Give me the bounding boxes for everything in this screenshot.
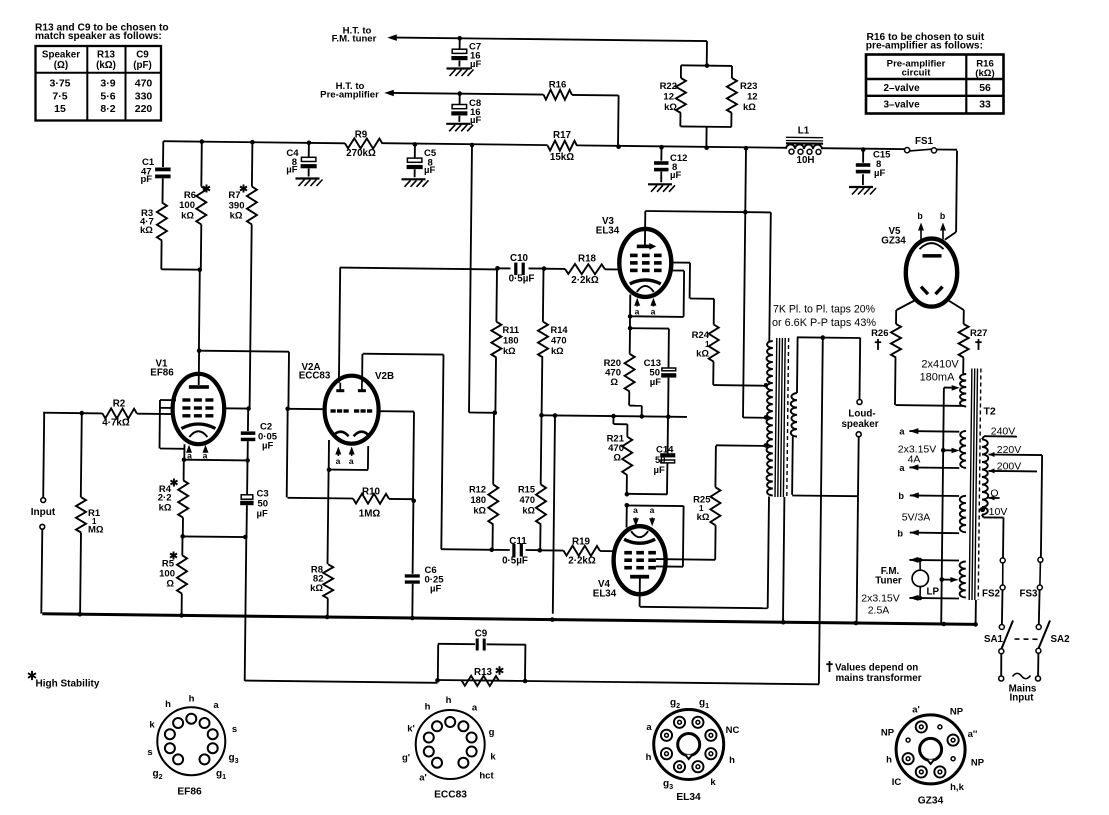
wire FS2 to SA1 — [1001, 590, 1004, 625]
svg-text:2–valve: 2–valve — [884, 83, 921, 94]
capacitor C9 — [438, 639, 526, 681]
label FM Tuner — [875, 566, 902, 587]
node OPT tap2 — [764, 443, 769, 448]
svg-text:270kΩ: 270kΩ — [346, 148, 376, 159]
resistor R7 — [247, 142, 257, 408]
node R22 rail — [704, 145, 709, 150]
svg-text:EF86: EF86 — [177, 787, 202, 798]
label 7K taps — [772, 304, 876, 330]
wire 240V — [982, 436, 1017, 439]
svg-text:g': g' — [402, 753, 410, 764]
label 5V/3A — [902, 512, 931, 524]
node C5 rail — [413, 142, 418, 147]
wire R24 to tap — [713, 384, 766, 387]
svg-text:C9: C9 — [475, 629, 488, 640]
label H.T. to F.M. tuner — [332, 25, 377, 44]
svg-text:FS2: FS2 — [982, 588, 1001, 599]
svg-text:4·7kΩ: 4·7kΩ — [102, 418, 130, 429]
svg-text:Input: Input — [1010, 692, 1035, 703]
svg-text:kΩ: kΩ — [522, 506, 535, 516]
wire B+ vertical — [469, 145, 495, 413]
label C15 — [873, 150, 891, 180]
label R16 — [549, 80, 567, 91]
svg-text:R11: R11 — [503, 325, 520, 335]
node R8 gnd — [325, 615, 330, 620]
label 240V — [991, 425, 1016, 437]
svg-text:R9: R9 — [355, 129, 368, 140]
svg-text:a: a — [651, 307, 656, 317]
node V1 cathode — [182, 457, 187, 462]
wire R3 bottom — [161, 241, 200, 270]
heater pin V5 b — [917, 211, 924, 240]
svg-text:b: b — [898, 491, 904, 501]
node R4/R5 junction — [180, 534, 185, 539]
wire SA1 to terminal — [1000, 654, 1002, 676]
wire g2 into tube — [224, 407, 249, 409]
label high stability — [28, 671, 100, 690]
socket ECC83 — [416, 710, 485, 779]
resistor R19 — [540, 546, 614, 556]
svg-text:k: k — [149, 720, 155, 731]
tube V5 GZ34 — [906, 239, 957, 307]
ground C5 — [402, 179, 429, 187]
svg-text:R23: R23 — [740, 81, 757, 92]
capacitor C12 — [654, 147, 669, 182]
svg-text:a: a — [899, 463, 905, 473]
svg-text:3·75: 3·75 — [49, 78, 70, 90]
svg-text:(pF): (pF) — [133, 60, 152, 71]
wire R10 link — [288, 497, 354, 500]
node V4 cathode 1 — [625, 492, 630, 497]
wire V2B grid out — [378, 411, 414, 574]
svg-text:µF: µF — [424, 165, 435, 176]
node V1 plate link — [197, 348, 202, 353]
svg-text:R15: R15 — [518, 485, 535, 495]
lamp LP — [912, 560, 928, 598]
label R2 — [102, 399, 130, 429]
wire T2 CT bus — [941, 388, 944, 625]
capacitor C7 — [451, 38, 467, 66]
capacitor C14 — [660, 417, 675, 495]
svg-text:15kΩ: 15kΩ — [550, 152, 574, 163]
svg-text:10V: 10V — [989, 506, 1008, 518]
node R14 rail — [539, 413, 544, 418]
svg-text:kΩ: kΩ — [664, 102, 677, 113]
label C5 — [424, 148, 437, 176]
svg-text:7K Pl. to Pl. taps 20%: 7K Pl. to Pl. taps 20% — [773, 304, 875, 316]
svg-text:k: k — [710, 777, 716, 788]
tap O — [989, 495, 1000, 500]
label R4 — [158, 479, 178, 514]
wire V1 cathode — [183, 444, 185, 459]
T2 primary winding — [982, 439, 988, 514]
node B+ plate cross — [743, 210, 748, 215]
svg-text:SA1: SA1 — [984, 634, 1004, 645]
wire R4 to C3 — [183, 535, 246, 538]
label C9 — [475, 629, 488, 640]
node C13/C14 rail — [666, 414, 671, 419]
label 10V — [989, 506, 1008, 518]
fuse FS3 — [1037, 557, 1043, 590]
capacitor C10 — [514, 263, 525, 276]
wire FM bottom — [909, 595, 959, 601]
label 2x3.15V 4A — [898, 444, 937, 466]
svg-text:NP: NP — [950, 707, 964, 718]
label R7 — [228, 185, 247, 222]
ground C12 — [648, 184, 675, 192]
svg-text:High Stability: High Stability — [36, 679, 100, 690]
svg-text:470: 470 — [519, 495, 535, 505]
T2 FM winding — [960, 562, 966, 598]
resistor R10 — [353, 494, 389, 504]
svg-text:R14: R14 — [551, 325, 569, 335]
label FS1 — [915, 136, 934, 147]
node B+ CT feed — [744, 146, 749, 151]
resistor R16 — [544, 90, 573, 100]
svg-text:h: h — [886, 755, 892, 766]
wire SA2 to terminal — [1037, 653, 1039, 676]
svg-text:C10: C10 — [510, 253, 529, 264]
svg-text:0·5µF: 0·5µF — [509, 274, 535, 285]
fuse FS2 — [1000, 558, 1005, 590]
wire V3 g3 tie — [630, 271, 684, 317]
resistor R9 — [345, 138, 383, 148]
svg-text:2x410V: 2x410V — [921, 359, 959, 371]
svg-text:FS1: FS1 — [915, 136, 934, 147]
wire R25 to tap — [716, 444, 766, 447]
node ground vert — [550, 617, 555, 622]
label Mains Input — [1009, 683, 1037, 703]
svg-text:3·9: 3·9 — [100, 78, 115, 90]
svg-text:F.M. tuner: F.M. tuner — [332, 34, 377, 45]
svg-text:L1: L1 — [798, 125, 810, 136]
label R19 — [568, 537, 596, 567]
terminal mains right — [1036, 676, 1041, 681]
svg-text:O: O — [990, 488, 998, 500]
label R3 — [140, 208, 154, 236]
T2 heater centre tap — [943, 448, 959, 453]
wire C13 branch — [630, 328, 669, 367]
wire H.T. to F.M. tuner — [387, 34, 707, 65]
wire V3 g2 to R24 — [671, 263, 714, 325]
resistor R6 — [196, 142, 206, 270]
node bus heater CT — [941, 448, 946, 453]
caption GZ34 — [918, 796, 944, 807]
wire V3 plate — [645, 211, 771, 341]
resistor R13 — [462, 676, 499, 686]
node core gnd — [781, 620, 786, 625]
label LP — [927, 587, 940, 598]
node R1 top — [80, 411, 85, 416]
node R5 gnd — [179, 613, 184, 618]
label C12 — [670, 153, 687, 181]
label R22 — [660, 81, 678, 113]
wire input top — [43, 413, 102, 498]
wire R22/R23 top bar — [681, 64, 732, 67]
label FS3 — [1020, 588, 1039, 599]
svg-text:Input: Input — [31, 507, 56, 518]
resistor R24 — [709, 325, 719, 385]
svg-text:kΩ: kΩ — [159, 503, 172, 514]
wire 220V drop — [1041, 455, 1042, 558]
svg-text:pF: pF — [141, 174, 153, 185]
svg-text:5V/3A: 5V/3A — [902, 512, 931, 524]
svg-text:a: a — [213, 700, 219, 711]
svg-text:470: 470 — [551, 336, 567, 346]
resistor R1 — [76, 413, 86, 615]
heater pin V4 a — [633, 505, 639, 526]
wire V5 anode right — [949, 301, 964, 325]
tube V1 EF86 — [173, 374, 225, 444]
label R23 — [740, 81, 758, 113]
wire 5V bottom b — [897, 529, 959, 539]
label values depend — [826, 661, 921, 684]
svg-text:3–valve: 3–valve — [884, 100, 921, 111]
node OPT CT — [764, 415, 769, 420]
wire C14 to cathode — [627, 493, 668, 496]
svg-text:V2B: V2B — [375, 371, 394, 382]
svg-text:5·6: 5·6 — [100, 90, 115, 102]
svg-text:Ω: Ω — [610, 377, 618, 388]
svg-text:240V: 240V — [991, 425, 1016, 437]
svg-text:R13: R13 — [474, 667, 493, 678]
svg-text:a: a — [472, 703, 478, 714]
label C2 — [258, 422, 278, 452]
ground C4 — [296, 179, 323, 187]
node feedback tap — [821, 335, 826, 340]
ground C15 — [849, 187, 876, 195]
label C7 — [469, 42, 481, 71]
svg-text:µF: µF — [650, 377, 661, 388]
svg-text:2·2kΩ: 2·2kΩ — [571, 275, 599, 286]
svg-text:a': a' — [419, 773, 427, 784]
svg-text:a: a — [899, 427, 905, 437]
capacitor C1 — [155, 168, 171, 203]
svg-text:NP: NP — [881, 728, 895, 739]
svg-text:h: h — [446, 695, 452, 706]
wire bottom ground rail — [42, 614, 977, 625]
wire 10V — [980, 507, 1004, 518]
inductor L1 — [786, 137, 823, 154]
wire R10 right link — [389, 498, 414, 500]
svg-text:k': k' — [407, 724, 415, 735]
svg-text:200V: 200V — [997, 461, 1022, 473]
wire LS bottom — [792, 437, 859, 623]
node preamp feed — [616, 144, 621, 149]
table title 2 — [866, 32, 985, 52]
svg-text:kΩ: kΩ — [140, 225, 153, 236]
resistor R15 — [536, 415, 546, 550]
label V4 — [593, 579, 617, 600]
OPT secondary winding — [791, 393, 797, 437]
capacitor C4 — [301, 143, 317, 177]
svg-text:Pre-amplifier: Pre-amplifier — [320, 89, 379, 100]
label R13 — [474, 666, 503, 678]
wire V2B plate — [362, 354, 443, 550]
wire C11 line — [441, 549, 540, 550]
label C4 — [286, 148, 299, 175]
label 2x410V — [920, 359, 960, 384]
label 220V — [997, 444, 1022, 456]
label C3 — [257, 489, 269, 520]
svg-text:IC: IC — [892, 777, 902, 788]
wire R22/R23 bottom bar — [681, 125, 732, 128]
label C10 — [509, 253, 535, 285]
node R6 rail — [200, 139, 205, 144]
resistor R21 — [613, 416, 632, 494]
svg-text:Ω: Ω — [613, 453, 621, 464]
wire FM top — [909, 557, 959, 563]
svg-text:a: a — [336, 456, 341, 466]
svg-text:12: 12 — [747, 92, 758, 103]
label C13 — [644, 358, 662, 388]
svg-text:kΩ: kΩ — [181, 210, 194, 221]
wire secondary top — [797, 337, 860, 393]
svg-text:speaker: speaker — [841, 419, 878, 430]
svg-text:Ω: Ω — [166, 579, 174, 590]
wire FS1 to V5 — [945, 151, 957, 240]
svg-text:FS3: FS3 — [1020, 588, 1039, 599]
label R1 — [88, 508, 104, 536]
svg-text:R26: R26 — [871, 328, 888, 339]
svg-text:GZ34: GZ34 — [881, 236, 906, 247]
tube V2 ECC83 — [325, 376, 379, 444]
wire 10V drop — [1002, 518, 1005, 558]
svg-text:R19: R19 — [572, 537, 591, 548]
svg-text:220V: 220V — [997, 444, 1022, 456]
labels GZ34 socket — [881, 705, 985, 794]
capacitor C8 — [451, 94, 467, 122]
wire R22/R23 to rail — [705, 127, 707, 148]
wire R26 to HT bottom — [896, 404, 965, 407]
node C8 — [457, 91, 462, 96]
node fb left — [435, 678, 440, 683]
svg-text:EL34: EL34 — [676, 792, 701, 803]
resistor R5 — [177, 536, 187, 615]
svg-text:R27: R27 — [970, 328, 987, 339]
svg-text:kΩ: kΩ — [310, 583, 323, 594]
wire V1 plate — [199, 270, 200, 385]
svg-text:470: 470 — [135, 78, 153, 90]
svg-text:33: 33 — [979, 100, 991, 111]
terminal loudspeaker top — [857, 400, 862, 405]
svg-text:kΩ: kΩ — [551, 346, 564, 356]
wire OPT CT feed — [743, 148, 766, 418]
svg-text:h: h — [189, 694, 195, 705]
node C10 left — [495, 266, 500, 271]
node C15 rail — [861, 147, 866, 152]
resistor R2 — [102, 408, 137, 418]
table title — [35, 23, 169, 42]
heater pin V4 a2 — [649, 505, 655, 526]
labels EF86 socket — [147, 694, 238, 782]
label FS2 — [982, 588, 1001, 599]
label R10 — [359, 487, 381, 520]
wire C1 drop — [162, 141, 164, 167]
svg-text:EF86: EF86 — [150, 368, 174, 379]
svg-text:µF: µF — [874, 168, 885, 179]
svg-text:µF: µF — [654, 465, 665, 476]
label R14 — [551, 325, 569, 356]
svg-text:a: a — [635, 307, 640, 317]
label R8 — [310, 565, 323, 595]
svg-text:GZ34: GZ34 — [918, 796, 944, 807]
svg-text:µF: µF — [470, 115, 481, 126]
resistor R25 — [710, 446, 720, 526]
capacitor C2 — [241, 431, 256, 459]
wire V4 cathode — [626, 505, 628, 527]
svg-text:SA2: SA2 — [1051, 634, 1071, 645]
node C10 right — [542, 266, 547, 271]
node V4 cathode 2 — [625, 503, 630, 508]
svg-text:56: 56 — [979, 83, 991, 94]
label C1 — [141, 157, 155, 185]
svg-text:R22: R22 — [660, 81, 677, 92]
switch link dashes — [1015, 638, 1041, 640]
wire FS3 to SA2 — [1038, 590, 1041, 625]
label R24 — [692, 330, 710, 360]
wire input bottom — [41, 529, 42, 613]
label a top — [899, 427, 905, 437]
label C14 — [654, 445, 675, 477]
wire core2 ground — [975, 600, 977, 624]
svg-text:h: h — [729, 755, 735, 766]
label SA1 — [984, 634, 1004, 645]
svg-text:h: h — [425, 702, 431, 713]
node V3 cathode 1 — [628, 314, 633, 319]
ground C8 — [446, 124, 473, 132]
svg-text:kΩ: kΩ — [503, 346, 516, 356]
node C4 rail — [307, 141, 312, 146]
resistor R8 — [323, 470, 333, 617]
svg-text:pre-amplifier as follows:: pre-amplifier as follows: — [866, 41, 983, 52]
svg-text:180: 180 — [503, 336, 519, 346]
terminal loudspeaker bottom — [856, 432, 861, 437]
resistor R17 — [548, 141, 577, 151]
label R27 — [970, 328, 987, 350]
node R21 rail — [611, 414, 616, 419]
svg-text:µF: µF — [430, 584, 441, 595]
svg-text:g: g — [489, 727, 495, 738]
label 2x3.15V 2.5A — [861, 593, 900, 617]
wire heater top a — [909, 428, 959, 434]
table R13/C9 speaker matching — [36, 46, 162, 121]
wire plate to V2A grid — [199, 351, 289, 498]
socket EF86 — [157, 707, 225, 775]
label V5 — [881, 226, 906, 247]
wire V3 cathode — [629, 295, 631, 329]
svg-text:µF: µF — [262, 441, 273, 452]
svg-text:1MΩ: 1MΩ — [359, 509, 381, 520]
label H.T. to Pre-amplifier — [320, 81, 379, 101]
svg-text:180mA: 180mA — [920, 372, 956, 384]
svg-text:7·5: 7·5 — [52, 90, 67, 102]
wire 5V top b — [898, 491, 959, 501]
node R7 rail — [250, 140, 255, 145]
wire V2A plate to C10 — [340, 268, 498, 270]
svg-text:a: a — [646, 722, 652, 733]
svg-text:MΩ: MΩ — [88, 525, 104, 536]
caption ECC83 — [434, 790, 467, 801]
label C8 — [469, 98, 481, 126]
node C7 — [457, 36, 462, 41]
label R26 — [871, 328, 888, 350]
resistor R18 — [544, 264, 620, 274]
svg-text:a': a' — [912, 705, 920, 716]
svg-text:s: s — [232, 724, 237, 735]
heater pin V1 a — [186, 445, 192, 461]
switch SA1 — [999, 621, 1013, 654]
